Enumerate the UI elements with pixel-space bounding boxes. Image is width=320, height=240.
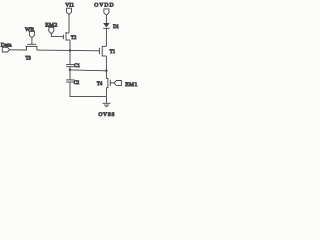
transistor T1 [99, 46, 106, 56]
wire node A to T1 gate [70, 49, 99, 51]
svg-text:T2: T2 [71, 36, 77, 41]
svg-text:T4: T4 [97, 82, 103, 87]
wire T3 drain to node A [37, 49, 70, 51]
port OVDD [104, 9, 109, 15]
wire node A to C1 [69, 50, 71, 64]
wire OVDD to D1 anode [105, 15, 107, 23]
port WR [29, 31, 34, 37]
transistor T2 [63, 32, 70, 41]
port EM1 [114, 81, 121, 86]
wire VI1 to T2 drain [68, 15, 70, 33]
ground OVSS [103, 97, 111, 107]
port EM2 [49, 27, 54, 33]
capacitor C2 [66, 80, 75, 82]
wire node C to C2 [69, 70, 71, 80]
port VI1 [67, 8, 72, 14]
svg-text:T1: T1 [110, 50, 116, 55]
wire T4 gate to EM1 [110, 82, 114, 84]
junction node B [105, 70, 107, 72]
transistor T3 [25, 44, 37, 50]
capacitor C1 [66, 65, 75, 67]
svg-text:D1: D1 [113, 25, 119, 30]
wire Data to T3 source [10, 49, 27, 51]
wire EM2 to T2 gate [51, 34, 63, 37]
svg-text:OVSS: OVSS [98, 112, 115, 118]
svg-text:C2: C2 [74, 81, 80, 86]
wire T4 source to ground [105, 88, 107, 97]
transistor T4 [106, 78, 110, 88]
wire C1 to node C [69, 67, 71, 71]
wire node B to T4 drain [105, 71, 107, 79]
diode D1 [103, 23, 110, 28]
svg-text:T3: T3 [26, 57, 32, 62]
wire node C to node B [70, 69, 106, 72]
wire WR to T3 gate [31, 38, 33, 45]
svg-text:OVDD: OVDD [94, 2, 114, 8]
wire D1 cathode to T1 drain [105, 28, 107, 46]
wire C2 to ground rail [70, 82, 106, 97]
junction node C [69, 69, 71, 71]
junction node A [69, 49, 71, 51]
port Data [2, 47, 10, 52]
svg-text:C1: C1 [74, 64, 80, 69]
wire T1 source to node B [105, 56, 107, 71]
wire T2 source to node A [69, 40, 71, 50]
svg-text:EM1: EM1 [125, 82, 138, 88]
